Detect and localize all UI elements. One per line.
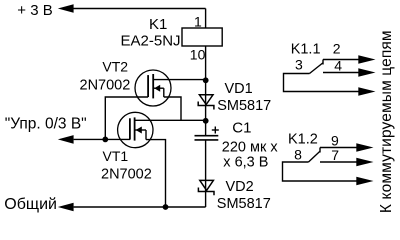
svg-text:EA2-5NJ: EA2-5NJ — [121, 32, 181, 49]
relay K1 coil — [182, 28, 222, 46]
wire pin9 line — [320, 147, 358, 149]
svg-text:3: 3 — [295, 56, 303, 72]
node input junction dot — [102, 137, 108, 143]
wire pin2 line — [323, 59, 360, 61]
svg-text:х 6,3 В: х 6,3 В — [223, 154, 268, 170]
svg-text:"Упр. 0/3 В": "Упр. 0/3 В" — [5, 116, 87, 133]
wire VT2 gate to input branch — [105, 97, 148, 139]
wire pin8 — [283, 162, 358, 181]
node B junction dot — [203, 118, 209, 124]
arrow pin2 — [358, 55, 375, 63]
transistor VT1 2N7002 — [118, 112, 153, 147]
contact fixed tick K1.2 — [319, 148, 321, 153]
svg-text:K1.2: K1.2 — [288, 132, 318, 148]
contact K1.2 — [283, 148, 358, 182]
svg-text:SM5817: SM5817 — [217, 196, 271, 212]
svg-text:8: 8 — [294, 147, 302, 163]
svg-text:2N7002: 2N7002 — [80, 77, 131, 93]
wire +3V top line — [73, 8, 206, 10]
arrow pin4 — [358, 68, 375, 76]
svg-text:SM5817: SM5817 — [217, 98, 271, 114]
svg-text:4: 4 — [334, 57, 342, 73]
svg-text:Общий: Общий — [4, 196, 57, 213]
C1 plus sign — [212, 127, 219, 134]
wire rail top to relay — [205, 9, 207, 29]
svg-text:К коммутируемым цепям: К коммутируемым цепям — [378, 30, 395, 213]
svg-text:C1: C1 — [232, 120, 251, 137]
arrow K1.2 bottom — [356, 177, 373, 185]
contact K1.1 — [284, 60, 360, 92]
arrow common (left) — [58, 203, 74, 212]
wire pin7 line — [320, 161, 358, 163]
node A junction dot — [203, 77, 209, 83]
svg-text:VT2: VT2 — [102, 59, 128, 75]
svg-text:VD1: VD1 — [225, 81, 253, 97]
wire C1 bottom to VD2 — [205, 140, 207, 181]
wire VT1 drain to node B — [134, 119, 206, 121]
svg-text:2N7002: 2N7002 — [101, 167, 152, 183]
svg-text:2: 2 — [333, 41, 341, 57]
wire VT2 drain to node A — [153, 79, 205, 81]
wire input line — [74, 138, 130, 140]
svg-text:K1.1: K1.1 — [291, 42, 321, 58]
wire VT2 source right and down — [164, 97, 181, 120]
arrow input (left) — [58, 135, 74, 144]
arrow +3V (left) — [58, 4, 74, 13]
contact arm K1.1 — [310, 63, 323, 74]
wire VT1 source right and down to common — [146, 140, 166, 207]
transistor VT2 2N7002 — [135, 70, 171, 106]
diode VD1 SM5817 — [198, 95, 214, 110]
contact fixed tick K1.1 — [322, 60, 324, 65]
wire VD2 to common — [205, 180, 207, 207]
arrow pin7 — [356, 158, 373, 166]
svg-text:K1: K1 — [149, 16, 167, 33]
svg-text:+ 3 В: + 3 В — [17, 2, 52, 19]
arrow K1.1 bottom — [358, 87, 375, 95]
node common junction dot — [163, 204, 169, 210]
wire pin3 — [284, 74, 360, 92]
svg-text:220 мк х: 220 мк х — [222, 139, 279, 155]
contact arm K1.2 — [309, 152, 320, 163]
svg-text:10: 10 — [190, 47, 206, 63]
svg-text:VT1: VT1 — [103, 148, 129, 164]
svg-text:1: 1 — [194, 14, 202, 30]
svg-text:7: 7 — [331, 147, 339, 163]
diode VD2 SM5817 — [198, 180, 214, 195]
svg-text:VD2: VD2 — [226, 179, 254, 195]
arrow pin9 — [356, 143, 373, 151]
wire relay pin10 down to VD1 — [205, 46, 207, 95]
wire pin4 line — [323, 72, 360, 74]
wire VD1 through to C1 — [205, 95, 207, 136]
wire common line — [74, 206, 206, 208]
capacitor C1 — [195, 136, 219, 140]
